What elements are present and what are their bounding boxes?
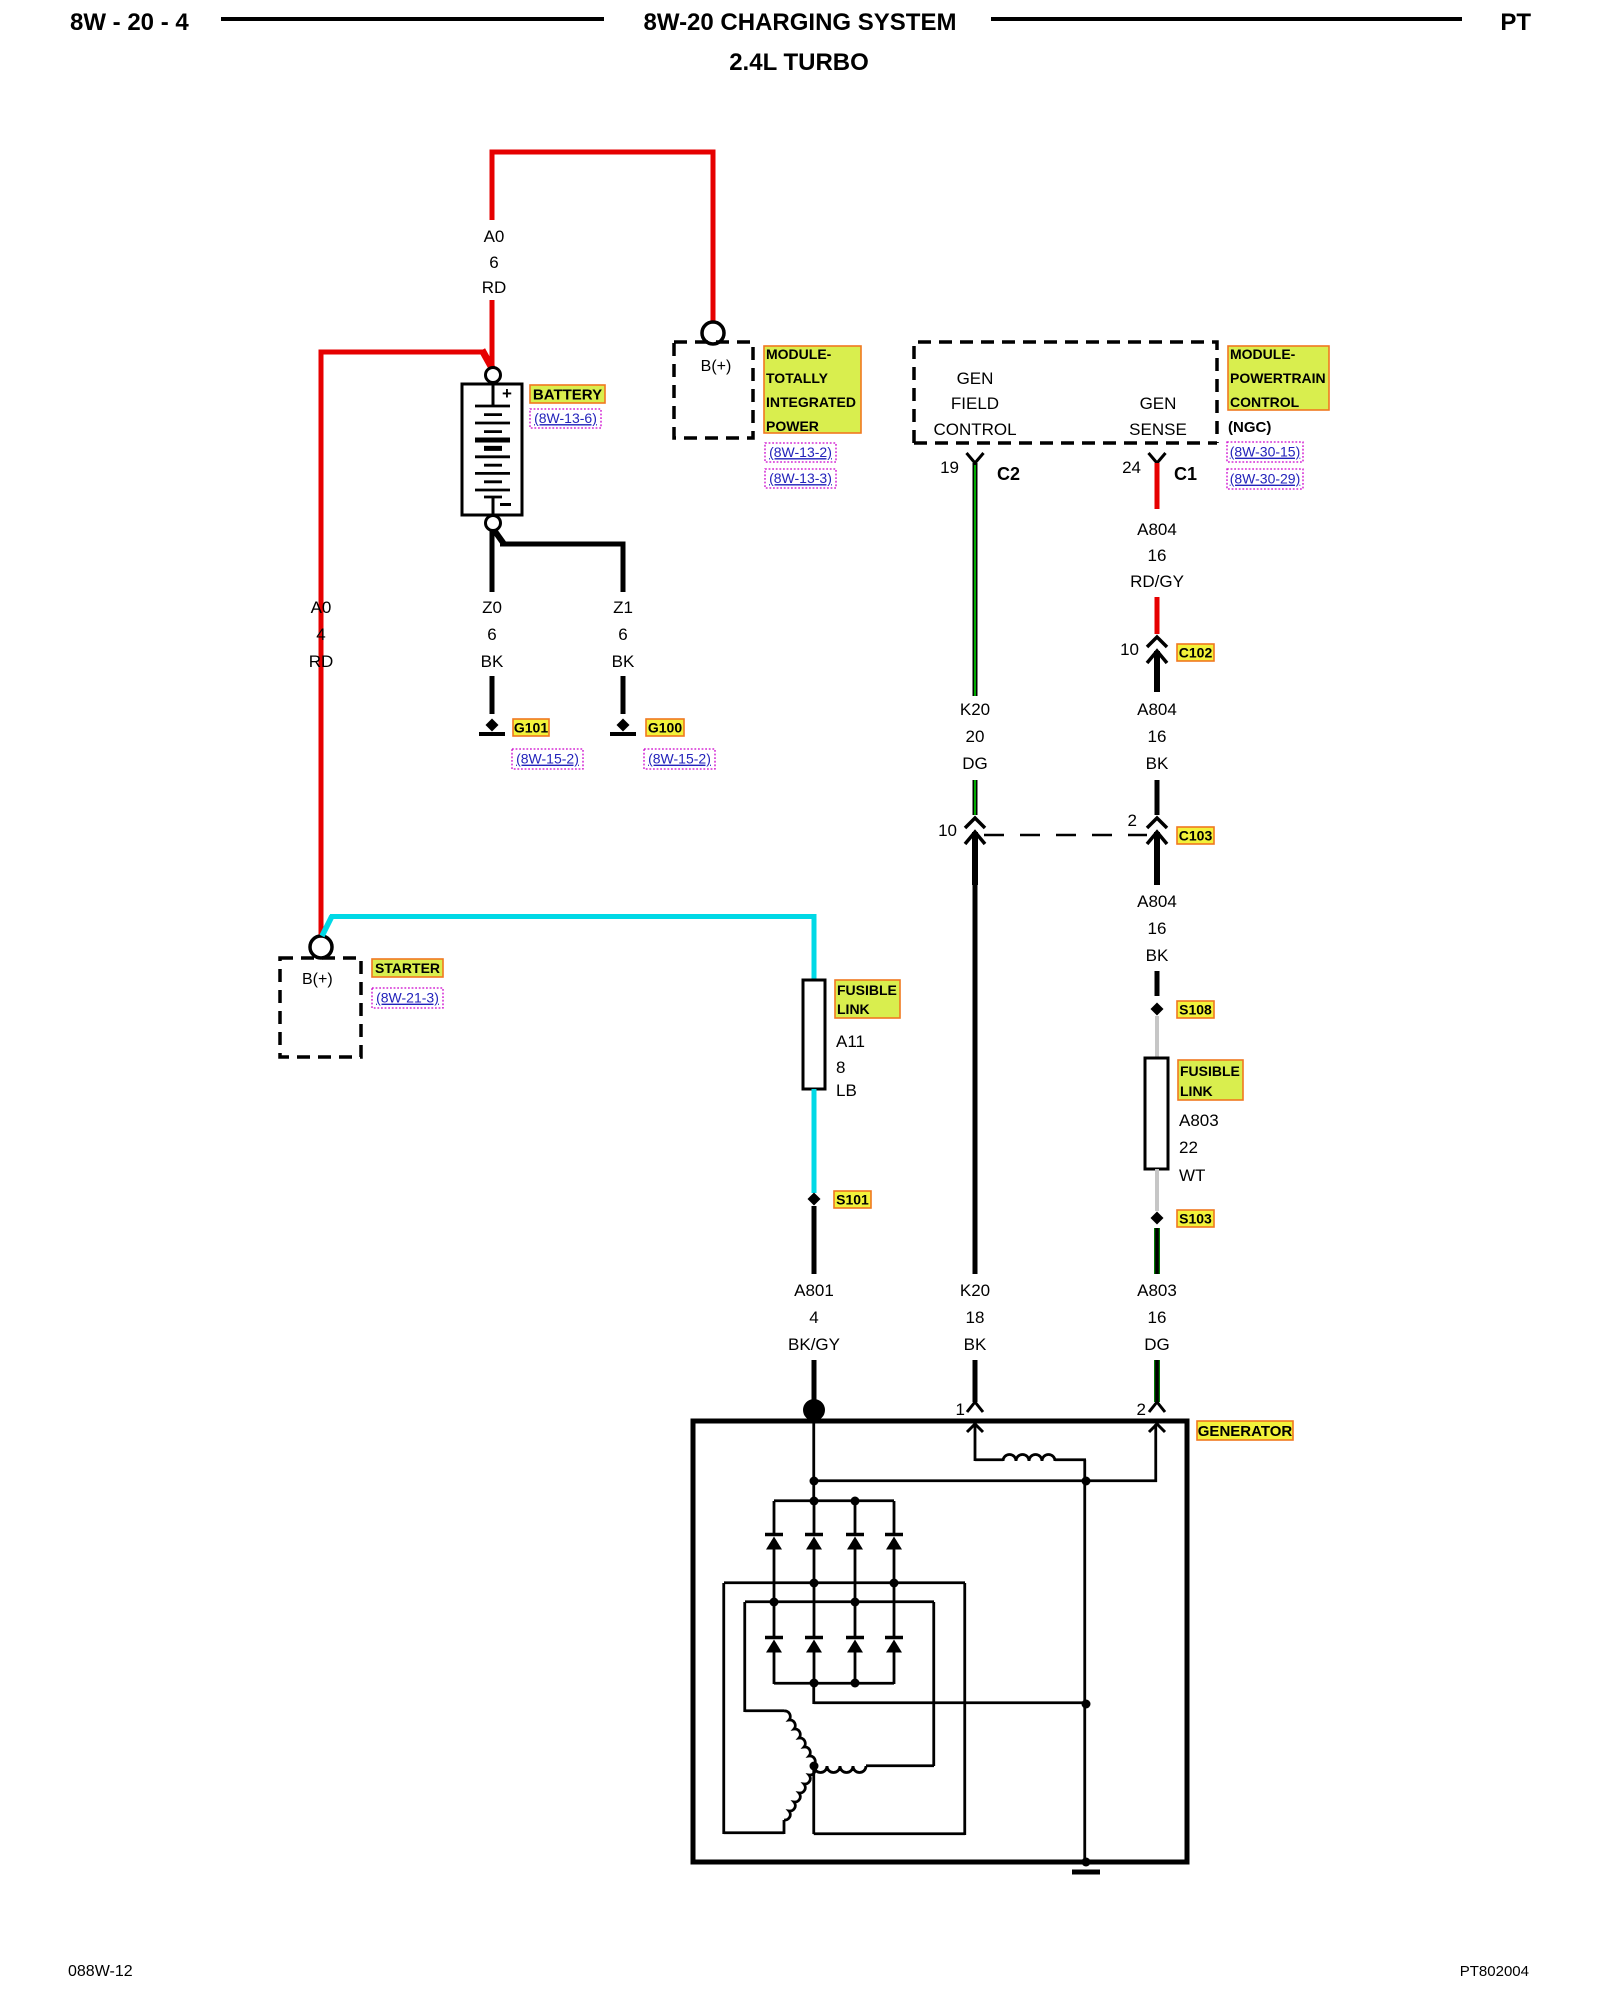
wire A804 16 BK lower segment <box>1155 971 1160 996</box>
TIPM link 8W-13-3 <box>765 469 836 488</box>
svg-text:8W-20 CHARGING SYSTEM: 8W-20 CHARGING SYSTEM <box>644 9 957 36</box>
node top bus col3 <box>851 1497 860 1506</box>
connector C102 <box>1147 637 1167 647</box>
svg-text:DG: DG <box>1144 1335 1170 1354</box>
node phase A col2 <box>810 1579 819 1588</box>
header rule right <box>991 17 1462 21</box>
battery link 8W-13-6 <box>530 409 601 428</box>
wire A804 16 RD/GY upper <box>1155 463 1160 509</box>
svg-text:(8W-30-29): (8W-30-29) <box>1230 471 1301 487</box>
wire A803 16 DG lower <box>1154 1360 1160 1402</box>
splice S101 label <box>834 1191 871 1208</box>
svg-text:19: 19 <box>940 458 959 477</box>
battery cell plates <box>475 405 510 408</box>
svg-text:POWER: POWER <box>766 418 819 434</box>
battery internal bottom lead <box>492 497 495 515</box>
svg-text:24: 24 <box>1122 458 1141 477</box>
svg-text:10: 10 <box>1120 640 1139 659</box>
connector C103 dashed tie <box>984 834 1147 837</box>
wire Z1 branch vertical <box>621 542 626 593</box>
wire A801 4 BK/GY upper <box>812 1206 817 1274</box>
PCM link 8W-30-29 <box>1227 469 1303 489</box>
svg-text:MODULE-: MODULE- <box>1230 346 1296 362</box>
wire A0 6 RD vertical lower segment <box>490 300 495 366</box>
svg-text:6: 6 <box>489 253 498 272</box>
svg-text:088W-12: 088W-12 <box>68 1963 133 1980</box>
ground G101 <box>486 719 499 732</box>
bridge column mid leads <box>773 1549 776 1639</box>
svg-text:K20: K20 <box>960 700 990 719</box>
svg-text:(8W-15-2): (8W-15-2) <box>648 751 711 767</box>
wire Z0 from battery negative <box>490 529 495 592</box>
starter link 8W-21-3 <box>372 988 443 1008</box>
ground G101 link 8W-15-2 <box>512 749 583 769</box>
svg-text:GEN: GEN <box>1140 394 1177 413</box>
svg-text:GEN: GEN <box>957 369 994 388</box>
svg-text:2: 2 <box>1137 1400 1146 1419</box>
svg-text:BATTERY: BATTERY <box>533 386 602 403</box>
wire field coil to ground leg <box>1055 1458 1086 1461</box>
svg-text:16: 16 <box>1148 546 1167 565</box>
node phase A col4 <box>890 1579 899 1588</box>
svg-text:A0: A0 <box>311 598 332 617</box>
wire Z1 branch horizontal <box>500 542 626 547</box>
svg-text:2: 2 <box>1128 811 1137 830</box>
svg-text:LINK: LINK <box>1180 1083 1213 1099</box>
ground G100 label <box>646 719 684 736</box>
battery minus sign <box>500 503 511 506</box>
diode D2 <box>805 1533 823 1537</box>
wire A0 right vertical to TIPM B(+) <box>711 150 716 327</box>
svg-text:(NGC): (NGC) <box>1228 419 1271 436</box>
wire A803 22 WT upper <box>1155 1016 1159 1058</box>
svg-text:C102: C102 <box>1179 644 1213 660</box>
header rule left <box>221 17 604 21</box>
fusible link label <box>835 980 900 1018</box>
wire A0 top horizontal <box>490 150 716 155</box>
svg-text:A803: A803 <box>1179 1111 1219 1130</box>
wire Z1 branch diagonal <box>494 530 504 544</box>
splice S103 label <box>1177 1210 1214 1227</box>
svg-text:Z1: Z1 <box>613 598 633 617</box>
svg-text:6: 6 <box>618 625 627 644</box>
node A801 generator terminal <box>803 1399 825 1421</box>
starter B(+) terminal circle <box>310 936 332 958</box>
fusible link A803 box <box>1145 1058 1168 1169</box>
svg-text:1: 1 <box>956 1400 965 1419</box>
connector C103 right half <box>1147 818 1167 828</box>
stator coil 1 diagonal <box>784 1711 815 1765</box>
svg-text:S103: S103 <box>1179 1210 1212 1226</box>
wire phase B right drop <box>932 1602 935 1766</box>
svg-text:A801: A801 <box>794 1281 834 1300</box>
connector C102 label <box>1177 644 1214 661</box>
wire bridge output down <box>812 1683 815 1704</box>
svg-text:BK: BK <box>481 652 504 671</box>
svg-text:A804: A804 <box>1137 892 1177 911</box>
wire phase B left horizontal <box>745 1709 784 1712</box>
stator coil 3 diagonal <box>784 1766 815 1820</box>
wire Z0 lower segment <box>490 676 495 714</box>
svg-text:INTEGRATED: INTEGRATED <box>766 394 856 410</box>
svg-text:WT: WT <box>1179 1166 1205 1185</box>
svg-text:C2: C2 <box>997 464 1020 484</box>
wire A0 4 RD vertical from starter <box>319 352 324 938</box>
wire K20 18 BK lower <box>973 1360 978 1402</box>
starter dashed box <box>280 958 361 1057</box>
svg-text:LINK: LINK <box>837 1001 870 1017</box>
svg-text:DG: DG <box>962 754 988 773</box>
diode D3 <box>846 1533 864 1537</box>
node stator wye center <box>810 1762 819 1771</box>
svg-text:B(+): B(+) <box>701 358 732 375</box>
svg-text:A804: A804 <box>1137 520 1177 539</box>
bridge top bus <box>774 1499 894 1502</box>
wire phase A right drop <box>963 1583 966 1835</box>
ground G101 label <box>513 719 549 736</box>
svg-text:RD: RD <box>309 652 334 671</box>
connector C103 left half <box>965 818 985 828</box>
wire A11 cyan vertical <box>812 915 817 981</box>
node junction field/ground leg <box>1082 1477 1091 1486</box>
svg-text:8W - 20 - 4: 8W - 20 - 4 <box>70 9 189 36</box>
ground G100 link 8W-15-2 <box>644 749 715 769</box>
svg-text:16: 16 <box>1148 1308 1167 1327</box>
svg-text:4: 4 <box>316 625 325 644</box>
bridge phase bus B <box>745 1600 934 1603</box>
wire Z1 lower segment <box>621 676 626 714</box>
module PCM dashed box outline <box>914 342 1217 443</box>
svg-text:BK: BK <box>1146 754 1169 773</box>
wire wye center drop <box>812 1766 815 1834</box>
svg-text:PT: PT <box>1500 9 1531 36</box>
svg-text:6: 6 <box>487 625 496 644</box>
svg-text:LB: LB <box>836 1081 857 1100</box>
svg-text:FUSIBLE: FUSIBLE <box>837 982 897 998</box>
battery negative terminal circle <box>486 516 501 531</box>
svg-text:POWERTRAIN: POWERTRAIN <box>1230 370 1326 386</box>
wire stator bottom left <box>724 1831 784 1834</box>
svg-text:8: 8 <box>836 1058 845 1077</box>
svg-text:22: 22 <box>1179 1138 1198 1157</box>
connector C103 label <box>1177 827 1214 844</box>
svg-text:(8W-21-3): (8W-21-3) <box>376 990 439 1006</box>
node bottom bus col3 <box>851 1679 860 1688</box>
svg-text:18: 18 <box>966 1308 985 1327</box>
svg-text:CONTROL: CONTROL <box>1230 394 1300 410</box>
svg-text:(8W-13-6): (8W-13-6) <box>534 410 597 426</box>
TIPM link 8W-13-2 <box>765 443 836 462</box>
wire A0 6 RD vertical upper segment <box>490 150 495 220</box>
bridge column upper leads <box>773 1501 776 1536</box>
bridge phase bus A <box>724 1581 965 1584</box>
svg-text:TOTALLY: TOTALLY <box>766 370 829 386</box>
wire A0 4 RD horizontal to battery <box>319 350 485 355</box>
svg-text:(8W-30-15): (8W-30-15) <box>1230 444 1301 460</box>
svg-text:PT802004: PT802004 <box>1460 1963 1529 1980</box>
generator ground bar <box>1072 1870 1100 1875</box>
module TIPM label <box>764 346 861 433</box>
wire phase B left drop <box>743 1602 746 1712</box>
wire A801 lower <box>812 1360 817 1402</box>
wire A803 22 WT lower <box>1155 1169 1159 1211</box>
svg-text:FIELD: FIELD <box>951 394 999 413</box>
bridge bottom bus <box>774 1682 894 1685</box>
svg-text:BK: BK <box>964 1335 987 1354</box>
wire phase A left drop <box>722 1583 725 1834</box>
svg-text:16: 16 <box>1148 919 1167 938</box>
wire pin1 to field coil <box>974 1424 977 1461</box>
generator label <box>1197 1421 1293 1440</box>
splice S108 <box>1151 1003 1164 1016</box>
node phase B col3 <box>851 1598 860 1607</box>
PCM link 8W-30-15 <box>1227 442 1303 462</box>
splice S108 label <box>1177 1001 1214 1018</box>
wire A804 16 BK upper segment <box>1155 780 1160 815</box>
bridge column lower leads <box>773 1652 776 1684</box>
ground G100 <box>617 719 630 732</box>
svg-text:2.4L TURBO: 2.4L TURBO <box>729 49 869 76</box>
module TIPM dashed box <box>674 342 753 438</box>
module PCM label <box>1228 346 1329 410</box>
wire K20 18 BK upper <box>973 885 978 1274</box>
svg-text:S108: S108 <box>1179 1001 1212 1017</box>
svg-text:(8W-15-2): (8W-15-2) <box>516 751 579 767</box>
wire bridge output horizontal to ground leg <box>814 1701 1086 1704</box>
generator pin 2 fork <box>1149 1402 1165 1412</box>
wire K20 20 DG upper <box>973 463 978 696</box>
TIPM B(+) terminal circle <box>702 322 724 344</box>
stator coil 2 horizontal <box>814 1766 866 1773</box>
wire A804 16 RD/GY lower <box>1155 597 1160 634</box>
svg-text:RD: RD <box>482 278 507 297</box>
wire A11 cyan diagonal from starter <box>322 916 332 936</box>
svg-text:A803: A803 <box>1137 1281 1177 1300</box>
svg-text:G101: G101 <box>514 719 548 735</box>
wire stator bottom right <box>814 1832 965 1835</box>
svg-text:B(+): B(+) <box>302 971 333 988</box>
wire A11 cyan horizontal <box>330 914 817 919</box>
wire ground leg vertical <box>1083 1482 1086 1862</box>
node top bus col2 <box>810 1497 819 1506</box>
svg-text:A804: A804 <box>1137 700 1177 719</box>
svg-text:BK: BK <box>1146 946 1169 965</box>
node bridge output at ground leg <box>1082 1700 1091 1709</box>
generator box <box>693 1421 1187 1862</box>
connector C2 fork <box>967 453 984 463</box>
generator pin 1 arrow <box>967 1424 983 1432</box>
svg-text:A0: A0 <box>484 227 505 246</box>
svg-text:+: + <box>502 384 512 403</box>
svg-text:20: 20 <box>966 727 985 746</box>
generator pin 1 fork <box>967 1402 983 1412</box>
diode D1 <box>765 1533 783 1537</box>
node junction A801/B+ bus <box>810 1477 819 1486</box>
fusible link A11 box <box>803 980 825 1089</box>
diode D7 <box>846 1636 864 1640</box>
svg-text:BK: BK <box>612 652 635 671</box>
generator pin 2 arrow <box>1149 1424 1165 1432</box>
svg-text:C1: C1 <box>1174 464 1197 484</box>
splice S101 <box>808 1193 821 1206</box>
diode D4 <box>885 1533 903 1537</box>
svg-text:RD/GY: RD/GY <box>1130 572 1184 591</box>
svg-text:16: 16 <box>1148 727 1167 746</box>
svg-text:GENERATOR: GENERATOR <box>1198 1423 1293 1440</box>
svg-text:S101: S101 <box>836 1191 869 1207</box>
diode D8 <box>885 1636 903 1640</box>
svg-text:(8W-13-2): (8W-13-2) <box>769 444 832 460</box>
wire A803 16 DG upper <box>1154 1228 1160 1274</box>
svg-text:CONTROL: CONTROL <box>933 420 1016 439</box>
splice S103 <box>1151 1212 1164 1225</box>
svg-text:A11: A11 <box>836 1032 865 1051</box>
svg-text:(8W-13-3): (8W-13-3) <box>769 470 832 486</box>
battery positive terminal circle <box>486 368 501 383</box>
fusible link A803 label <box>1178 1060 1243 1100</box>
node generator ground <box>1082 1858 1091 1867</box>
battery internal top lead <box>492 383 495 406</box>
wire pin2 vertical <box>1154 1424 1157 1482</box>
wire K20 20 DG lower <box>973 780 978 815</box>
wire A11 cyan below link <box>812 1089 817 1193</box>
field coil L1 <box>1003 1455 1055 1461</box>
svg-text:BK/GY: BK/GY <box>788 1335 840 1354</box>
battery box <box>462 384 522 515</box>
svg-text:K20: K20 <box>960 1281 990 1300</box>
battery label <box>530 385 605 403</box>
starter label <box>372 959 443 977</box>
wire B+ bus horizontal <box>814 1479 1157 1482</box>
diode D6 <box>805 1636 823 1640</box>
svg-text:MODULE-: MODULE- <box>766 346 832 362</box>
wire A801 into bridge <box>812 1421 815 1501</box>
wire coil 2 to phase B right drop <box>866 1764 934 1767</box>
svg-text:SENSE: SENSE <box>1129 420 1187 439</box>
svg-text:STARTER: STARTER <box>375 960 440 976</box>
wire coil 3 tail <box>783 1820 786 1834</box>
svg-text:10: 10 <box>938 821 957 840</box>
svg-text:G100: G100 <box>648 719 682 735</box>
svg-text:C103: C103 <box>1179 827 1213 843</box>
svg-text:4: 4 <box>809 1308 818 1327</box>
svg-text:FUSIBLE: FUSIBLE <box>1180 1063 1240 1079</box>
node bottom bus col2 <box>810 1679 819 1688</box>
connector C1 fork <box>1149 453 1166 463</box>
node phase B col1 <box>770 1598 779 1607</box>
diode D5 <box>765 1636 783 1640</box>
svg-text:Z0: Z0 <box>482 598 502 617</box>
wire A0 4 RD diagonal into battery terminal <box>482 350 492 368</box>
